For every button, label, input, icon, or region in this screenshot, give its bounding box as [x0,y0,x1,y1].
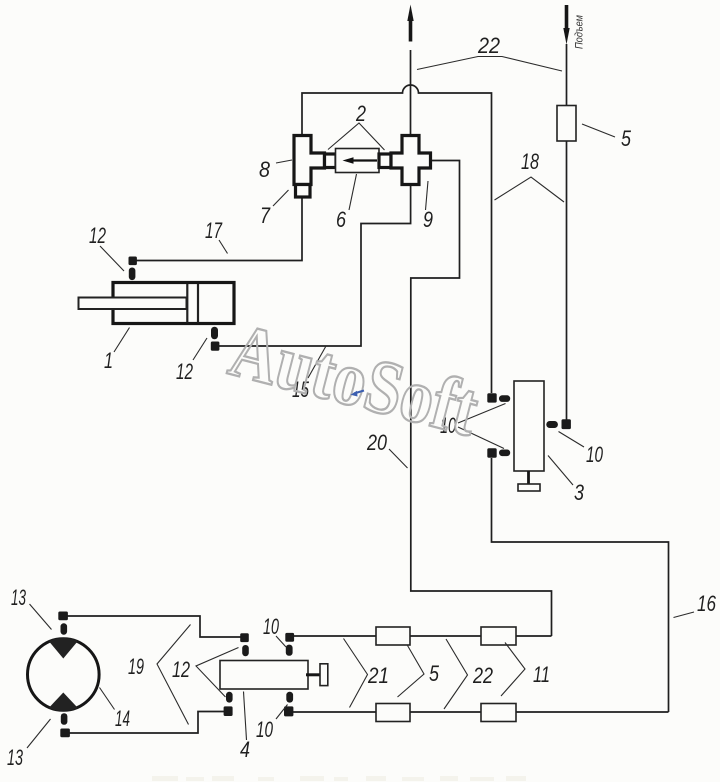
svg-text:2: 2 [355,101,366,126]
wire 15: cylinder bottom port right, up, right, up to cross 9 bottom [219,185,411,346]
svg-text:21: 21 [367,663,389,688]
element 3: hydraulic lock body [514,381,544,471]
cylinder 1: piston rod [79,298,187,310]
pump unit 4: body [220,661,308,690]
wire: top row of bottom manifold (through throttles 5 and 11) [293,635,552,637]
svg-text:3: 3 [574,480,585,505]
up-flow arrow at top [407,5,413,42]
svg-text:8: 8 [259,157,271,182]
fitting 12 pump bottom-left [224,692,233,716]
svg-text:Подъем: Подъем [574,15,586,49]
throttle 5 (top right line) [557,106,576,142]
wire below element 5 [566,140,568,420]
svg-text:22: 22 [472,663,493,688]
pump 4: drive plate [320,664,328,686]
svg-text:22: 22 [477,33,500,58]
nut 2 (left) [325,154,337,168]
throttle 11 (top row) [481,627,516,645]
svg-text:12: 12 [172,657,190,682]
svg-text:6: 6 [336,207,347,232]
element 3: drain stem [527,471,530,484]
fitting 13 motor bottom [60,713,70,737]
wire 19 top: motor top port to pump 4 left-top port [67,616,241,637]
svg-text:4: 4 [240,737,250,762]
svg-text:14: 14 [115,706,130,731]
svg-text:10: 10 [263,614,279,639]
wire: top horizontal with hop over vertical, down to element 3 left-top port [302,85,492,393]
fitting 12 on cylinder top port [129,257,137,281]
wire 18/22 right branch: from down-arrow через element 5 to element 3 right port [566,44,568,106]
wire 16: element 3 bottom-left port down, right, down to bottom row [492,458,669,712]
faint cropped text at bottom edge [152,776,526,781]
hydraulic cylinder 1: barrel [113,283,234,324]
element 3: base plate [518,484,540,491]
fitting 12 pump top-left [240,633,249,656]
svg-text:19: 19 [128,654,144,679]
svg-text:11: 11 [533,662,550,687]
fitting 12 on cylinder bottom port [211,327,220,351]
throttle 11 (bottom row) [481,704,516,722]
fitting 10 pump top-right [285,633,294,656]
throttle 5 (bottom manifold, top row) [376,627,410,645]
cylinder 1: piston [186,284,188,323]
element 8: tee body [294,136,325,185]
cross fitting 9 [391,136,431,185]
hydraulic motor 14: housing [28,639,100,711]
svg-text:9: 9 [423,207,433,232]
svg-text:12: 12 [176,359,193,384]
fitting 10 at element 3 left-top [487,393,510,402]
wire: vertical from up-arrow through hop gap to cross 9 top [410,50,412,136]
flow arrow inside 6 [352,159,377,161]
pump 4: drive stem [306,673,320,676]
svg-text:7: 7 [260,203,271,228]
svg-text:16: 16 [697,591,717,616]
svg-text:18: 18 [521,149,540,174]
wire 19 bottom: motor bottom port to pump 4 left-bottom port [69,712,225,734]
svg-text:17: 17 [205,218,223,243]
svg-text:13: 13 [11,585,26,610]
svg-text:1: 1 [104,348,113,373]
wire 20: cross 9 right arm staircase down to bottom manifold [411,161,552,637]
svg-text:20: 20 [366,430,387,455]
motor 14: top wedge [49,638,78,659]
motor 14: bottom wedge [49,693,78,712]
fitting 13 motor top [58,612,68,635]
svg-text:13: 13 [7,745,23,770]
svg-text:10: 10 [586,442,604,467]
element 7: bottom flange of 8 [296,185,311,198]
fitting 10 pump bottom-right [284,692,293,717]
svg-text:5: 5 [429,661,440,686]
wire: bottom row of bottom manifold (through throttles 22 and 11) [293,711,669,713]
throttle 22 (bottom row) [376,704,410,722]
svg-text:10: 10 [256,717,274,742]
down-flow arrow (Подъем) [563,5,569,45]
nut 2 (right) [379,154,391,168]
svg-text:5: 5 [621,126,632,151]
fitting 10 at element 3 left-bottom [487,448,510,457]
wire 17: from element 7 bottom down then left to cylinder top port [136,196,302,261]
svg-text:12: 12 [89,223,106,248]
watermark blue mark [354,391,364,394]
fitting 10 at element 3 right [546,419,571,429]
check valve 6 [336,149,380,173]
